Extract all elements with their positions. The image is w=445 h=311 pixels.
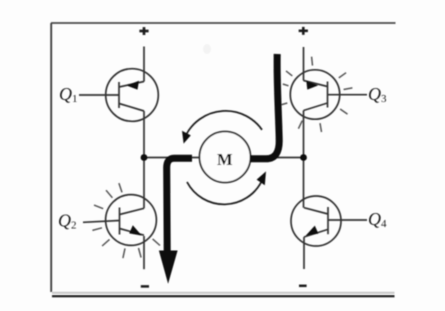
border frame top [51,22,396,24]
wire: node A to motor left terminal [144,157,200,159]
transistor Q2 (NPN, bottom-left) [83,195,156,246]
transistor Q3 (PNP, top-right, active) [290,70,367,119]
minus terminal left (-) [141,285,149,288]
current path arrowhead [159,251,178,284]
node B junction dot [300,154,307,161]
rays around Q3 (active) [279,57,353,132]
wire: left rail from + to Q1 emitter [143,47,145,82]
wire: right rail node B down to Q4 collector [303,158,305,208]
node A junction dot [141,154,148,161]
transistor Q4 (NPN, bottom-right) [291,196,367,246]
wire: motor right terminal to node B [251,157,304,159]
border frame left [50,23,52,292]
svg-text:Q2: Q2 [58,211,77,232]
wire: left rail Q1 collector down to node A [143,111,145,158]
wire: Q2 emitter down to bottom [143,236,145,269]
plus terminal left (+) [139,27,148,35]
border frame bottom black line [52,295,395,297]
motor M [200,132,251,183]
svg-text:Q1: Q1 [59,84,78,105]
svg-text:Q4: Q4 [368,209,387,230]
wire: right rail from + to Q3 emitter [303,47,305,81]
transistor Q1 (PNP, top-left) [79,69,158,122]
wire: Q4 emitter down to bottom [303,237,305,269]
minus terminal right (-) [299,285,307,288]
rotation arrow upper (counterclockwise) [182,111,262,144]
wire: left rail node A down to Q2 collector [143,158,145,209]
current path thick stroke right (from + rail through Q3 to motor) [250,54,279,159]
faint smudge artifact [203,44,211,54]
rotation arrow lower (counterclockwise) [187,171,266,204]
current path thick stroke left (from motor through Q2 path downward) [167,158,192,252]
wire: right rail Q3 collector down to node B [303,111,305,158]
svg-text:Q3: Q3 [368,84,387,105]
plus terminal right (+) [299,27,308,35]
border frame bottom grey line [52,292,395,294]
rays around Q2 (active) [92,183,160,258]
svg-text:M: M [217,150,233,169]
